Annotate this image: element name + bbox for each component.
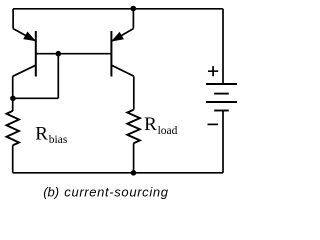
label Rbias	[35, 123, 68, 146]
svg-text:R: R	[35, 123, 48, 144]
svg-text:bias: bias	[49, 134, 68, 146]
wire bottom rail	[13, 172, 223, 174]
caption	[43, 184, 169, 199]
wire Rload bottom lead	[133, 143, 135, 173]
node B (collector/Rbias junction dot)	[10, 96, 16, 102]
label Rload	[144, 114, 178, 137]
battery V1	[206, 84, 237, 111]
battery minus label	[208, 123, 219, 125]
wire Q1 collector down	[12, 76, 14, 111]
node C (top rail junction dot)	[131, 6, 137, 12]
battery plus label	[208, 66, 218, 76]
wire Q2 emitter lead from top rail	[132, 9, 134, 29]
wire Q1 emitter lead from top rail	[12, 9, 14, 29]
node A (base junction dot)	[56, 51, 62, 57]
transistor Q2	[111, 29, 133, 77]
wire battery bottom lead	[222, 111, 224, 173]
svg-text:current-sourcing: current-sourcing	[64, 184, 168, 199]
wire Rbias bottom lead	[12, 145, 14, 172]
svg-text:R: R	[144, 114, 157, 135]
resistor Rload	[127, 110, 140, 144]
wire base-collector tie vertical	[57, 54, 59, 99]
resistor Rbias	[7, 111, 20, 145]
node D (bottom rail junction dot)	[131, 170, 137, 176]
svg-text:load: load	[158, 125, 178, 137]
svg-text:(b): (b)	[43, 184, 59, 199]
wire right side (battery top lead)	[222, 9, 224, 84]
wire base-collector tie horizontal	[13, 97, 58, 99]
wire Q1 base to node A	[36, 53, 112, 55]
transistor Q1	[13, 29, 36, 77]
wire top rail	[13, 8, 223, 10]
wire Q2 collector down	[133, 76, 135, 110]
